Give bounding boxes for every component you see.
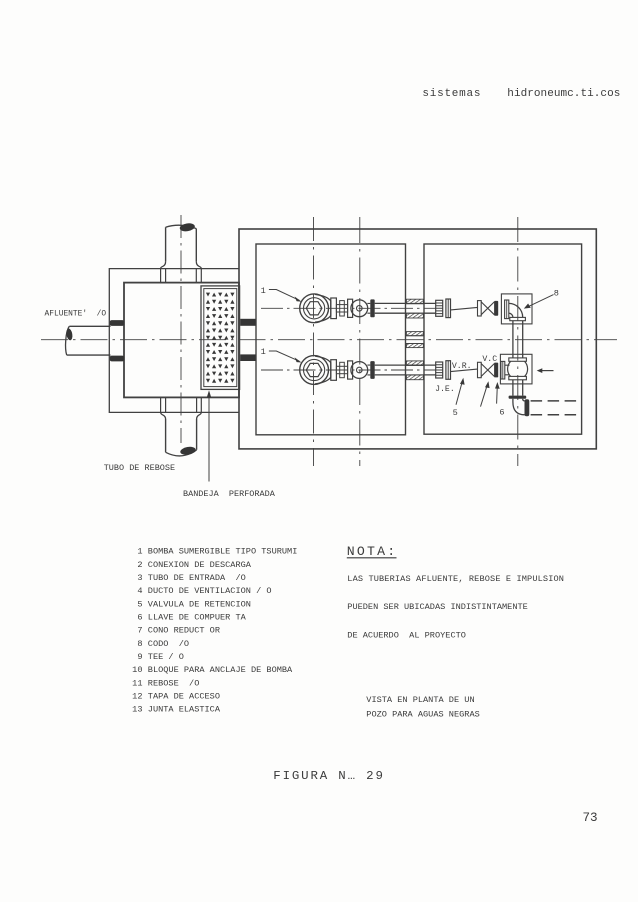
svg-text:DE ACUERDO AL PROYECTO: DE ACUERDO AL PROYECTO — [347, 630, 466, 640]
vent pipe cut ellipse — [179, 222, 195, 232]
svg-text:LLAVE DE COMPUER TA: LLAVE DE COMPUER TA — [148, 613, 247, 623]
svg-text:VISTA EN PLANTA DE UN: VISTA EN PLANTA DE UN — [366, 695, 474, 705]
discharge column centerline — [517, 217, 519, 466]
svg-text:10: 10 — [132, 665, 142, 675]
leader arrow middle — [481, 385, 488, 407]
pump P1 hexagon impeller — [306, 302, 322, 315]
fitting circle — [351, 362, 368, 379]
pipe stub chamber 2 — [424, 365, 436, 375]
wall nub left-bottom — [110, 356, 124, 362]
svg-text:9: 9 — [137, 652, 142, 662]
svg-text:J.E.: J.E. — [435, 385, 455, 394]
tee top flange — [509, 358, 527, 361]
tank vertical centerline — [180, 215, 182, 443]
wall hatch bands at vent duct crossing — [406, 332, 423, 336]
svg-text:LAS TUBERIAS AFLUENTE, REBOSE: LAS TUBERIAS AFLUENTE, REBOSE E IMPULSIO… — [347, 574, 564, 584]
future discharge dashed pipe — [531, 401, 578, 415]
rebose pipe body — [166, 419, 197, 452]
main horizontal centerline — [41, 339, 617, 341]
svg-text:VALVULA DE RETENCION: VALVULA DE RETENCION — [148, 599, 251, 609]
leader label 1 bottom — [269, 351, 299, 361]
pozo outer wall — [239, 229, 596, 449]
svg-text:hidroneumc.ti.cos: hidroneumc.ti.cos — [507, 88, 620, 100]
discharge flange A (conexion de descarga item 2) — [331, 360, 337, 381]
tee body bulge (tee item 9) — [508, 361, 528, 376]
afluente container wall — [109, 269, 239, 413]
svg-text:BANDEJA PERFORADA: BANDEJA PERFORADA — [183, 489, 276, 499]
wall nub left-top (afluente crossing) — [110, 320, 124, 326]
svg-text:6: 6 — [499, 407, 504, 417]
pipe stub chamber 2 — [424, 303, 436, 313]
svg-text:4: 4 — [137, 586, 142, 596]
svg-text:8: 8 — [554, 289, 559, 299]
pipe below tee — [513, 380, 523, 396]
leader label 8 — [527, 295, 554, 308]
fitting circle — [351, 300, 368, 317]
svg-text:NOTA:: NOTA: — [347, 544, 398, 559]
reducer cross piece (cono reductor item 7) — [336, 366, 347, 373]
wall nub right-bottom — [240, 354, 255, 361]
pump row 1 centerline — [261, 307, 436, 309]
svg-text:7: 7 — [137, 626, 142, 636]
leader label 1 top — [269, 290, 299, 301]
svg-text:V.C: V.C — [482, 355, 497, 364]
elbow inlet flange — [505, 300, 509, 319]
reducer cross piece (cono reductor item 7) — [336, 305, 347, 312]
leader arrow 6 — [496, 386, 499, 404]
vent pipe body — [166, 227, 197, 261]
svg-text:3: 3 — [137, 573, 142, 583]
junta elastica ribbed joint (item 13) — [436, 300, 443, 316]
svg-text:REBOSE /O: REBOSE /O — [148, 678, 200, 688]
afluente pipe end curve — [66, 326, 70, 355]
svg-text:TEE / O: TEE / O — [148, 652, 184, 662]
bottom elbow dark outlet flange — [525, 399, 530, 416]
svg-text:8: 8 — [137, 639, 142, 649]
svg-text:CODO /O: CODO /O — [148, 639, 189, 649]
svg-text:TUBO DE ENTRADA /O: TUBO DE ENTRADA /O — [148, 573, 246, 583]
leader arrow 5 — [456, 382, 462, 405]
fitting column centerline — [359, 217, 361, 466]
svg-text:13: 13 — [132, 705, 142, 715]
svg-text:BLOQUE PARA ANCLAJE DE BOMBA: BLOQUE PARA ANCLAJE DE BOMBA — [148, 665, 293, 675]
afluente pipe walls — [67, 326, 111, 355]
bandeja perforada outer frame — [201, 286, 240, 390]
svg-text:TAPA DE ACCESO: TAPA DE ACCESO — [148, 692, 220, 702]
wall hatch band upper — [406, 299, 423, 304]
valve right dark flange — [494, 363, 498, 378]
bandeja perforation triangles — [206, 293, 235, 383]
vertical discharge pipe — [513, 321, 523, 358]
gate valve bowtie — [481, 302, 494, 315]
rebose bell flare — [161, 412, 202, 419]
tank box (tapa de acceso) — [124, 283, 239, 398]
chamber 1 wall — [256, 244, 406, 435]
wall hatch band upper — [406, 361, 423, 366]
tee left flange — [501, 361, 505, 379]
rebose pipe cut ellipse — [180, 446, 197, 456]
flange E double bar — [446, 299, 451, 318]
svg-text:12: 12 — [132, 692, 142, 702]
svg-text:5: 5 — [453, 408, 458, 418]
flange E double bar — [446, 361, 451, 380]
bandeja perforada leader — [208, 398, 210, 482]
flange B — [348, 361, 353, 379]
flange B — [348, 299, 353, 317]
svg-text:JUNTA ELASTICA: JUNTA ELASTICA — [148, 705, 221, 715]
svg-text:CONEXION DE DESCARGA: CONEXION DE DESCARGA — [148, 560, 252, 570]
valve left flange — [478, 362, 482, 377]
svg-text:TUBO DE REBOSE: TUBO DE REBOSE — [104, 463, 175, 473]
pipe to wall — [375, 365, 406, 375]
svg-text:1: 1 — [137, 547, 142, 557]
svg-text:11: 11 — [132, 678, 142, 688]
svg-text:V.R.: V.R. — [452, 362, 472, 371]
rebose sleeve through slab — [161, 397, 202, 412]
short pipe stub — [367, 303, 370, 313]
rebose pipe bottom arc — [166, 450, 197, 456]
svg-text:1: 1 — [261, 286, 266, 296]
svg-text:FIGURA N… 29: FIGURA N… 29 — [273, 769, 384, 783]
tee inlet pipe — [505, 365, 510, 375]
svg-text:PUEDEN SER UBICADAS INDISTINTA: PUEDEN SER UBICADAS INDISTINTAMENTE — [347, 602, 528, 612]
valve right dark flange — [494, 301, 498, 316]
gate valve bowtie — [481, 364, 494, 377]
bottom elbow turning right — [513, 399, 525, 415]
pump P2 hexagon impeller — [306, 363, 322, 376]
afluente pipe cut ellipse — [66, 328, 74, 341]
short pipe stub — [367, 365, 370, 375]
pipe to wall — [375, 303, 406, 313]
bandeja perforada inner frame — [204, 289, 237, 387]
wall nub right-top — [240, 319, 255, 326]
dark band flange below tee — [509, 396, 527, 399]
elbow body (codo item 8) — [509, 303, 523, 317]
anchor block for elbow (item 10) — [501, 294, 532, 324]
schematic pipe line to valve — [451, 369, 478, 372]
svg-text:AFLUENTE' /O: AFLUENTE' /O — [45, 309, 107, 318]
vent pipe bell flare — [161, 261, 202, 268]
elbow outlet flange — [510, 317, 526, 320]
wall hatch band lower — [406, 313, 423, 318]
vent pipe top arc — [166, 225, 197, 228]
svg-text:73: 73 — [583, 811, 598, 825]
tee inlet arrow from right — [542, 370, 554, 372]
svg-text:5: 5 — [137, 599, 142, 609]
dark flange D — [370, 361, 374, 379]
vent pipe sleeve through slab — [161, 269, 202, 283]
chamber 2 wall — [424, 244, 582, 434]
svg-text:2: 2 — [137, 560, 142, 570]
svg-text:sistemas: sistemas — [422, 88, 481, 100]
pipe through wall — [406, 303, 425, 313]
valve left flange — [478, 301, 482, 316]
discharge flange A (conexion de descarga item 2) — [331, 298, 337, 319]
pump column centerline — [313, 217, 315, 466]
pump row 2 centerline — [261, 369, 436, 371]
pump P1 volute lobe — [315, 294, 331, 322]
pump P2 volute lobe — [315, 356, 331, 384]
svg-text:6: 6 — [137, 613, 142, 623]
svg-text:1: 1 — [261, 347, 266, 357]
schematic pipe line to valve — [451, 307, 478, 310]
svg-text:POZO PARA AGUAS NEGRAS: POZO PARA AGUAS NEGRAS — [366, 710, 479, 720]
pump P1 casing circle (bomba sumergible item 1) — [300, 294, 329, 323]
wall hatch band lower — [406, 375, 423, 380]
svg-text:DUCTO DE VENTILACION / O: DUCTO DE VENTILACION / O — [148, 586, 272, 596]
anchor block for tee (item 10) — [500, 354, 532, 384]
pump P2 casing circle (bomba sumergible item 1) — [300, 356, 329, 385]
dark flange D — [370, 299, 374, 317]
junta elastica ribbed joint (item 13) — [436, 362, 443, 378]
pipe through wall — [406, 365, 425, 375]
tee bottom flange — [509, 376, 527, 379]
svg-text:BOMBA SUMERGIBLE TIPO TSURUMI: BOMBA SUMERGIBLE TIPO TSURUMI — [148, 547, 298, 557]
svg-text:CONO REDUCT OR: CONO REDUCT OR — [148, 626, 220, 636]
